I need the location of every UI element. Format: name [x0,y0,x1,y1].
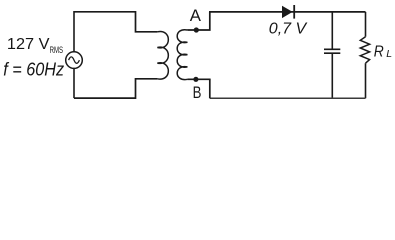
wire node B vertical [209,79,211,98]
capacitor C1 bottom lead [331,54,333,98]
diode D1 cathode bar [293,5,295,19]
capacitor C1 bottom plate [324,52,340,54]
node B junction dot [193,77,198,82]
svg-text:A: A [190,6,202,25]
transformer T1 secondary coil [177,30,187,80]
svg-text:0,7 V: 0,7 V [269,20,308,37]
transformer T1 primary coil [157,31,168,79]
node A junction dot [194,27,199,32]
wire right vertical upper [365,12,367,37]
resistor RL zigzag [360,37,369,64]
wire secondary top terminal to node A [187,12,209,30]
ac source sine wave [69,57,80,63]
svg-text:L: L [386,48,392,60]
svg-text:f = 60Hz: f = 60Hz [3,60,64,80]
svg-text:B: B [193,83,202,102]
wire left vertical lower [73,68,75,98]
wire top rail [209,11,366,13]
wire left loop bottom [74,79,157,98]
capacitor C1 top plate [324,48,340,50]
wire left vertical upper [73,11,75,52]
ac source V1 circle [66,52,83,69]
svg-text:RMS: RMS [50,45,64,55]
capacitor C1 top lead [331,12,333,49]
wire right vertical lower [365,63,367,98]
wire secondary bottom terminal to node B [187,78,210,80]
wire left loop top [74,12,157,32]
diode D1 triangle [282,6,293,18]
wire bottom rail [210,97,366,99]
svg-text:127 V: 127 V [7,36,50,53]
svg-text:R: R [374,43,384,60]
